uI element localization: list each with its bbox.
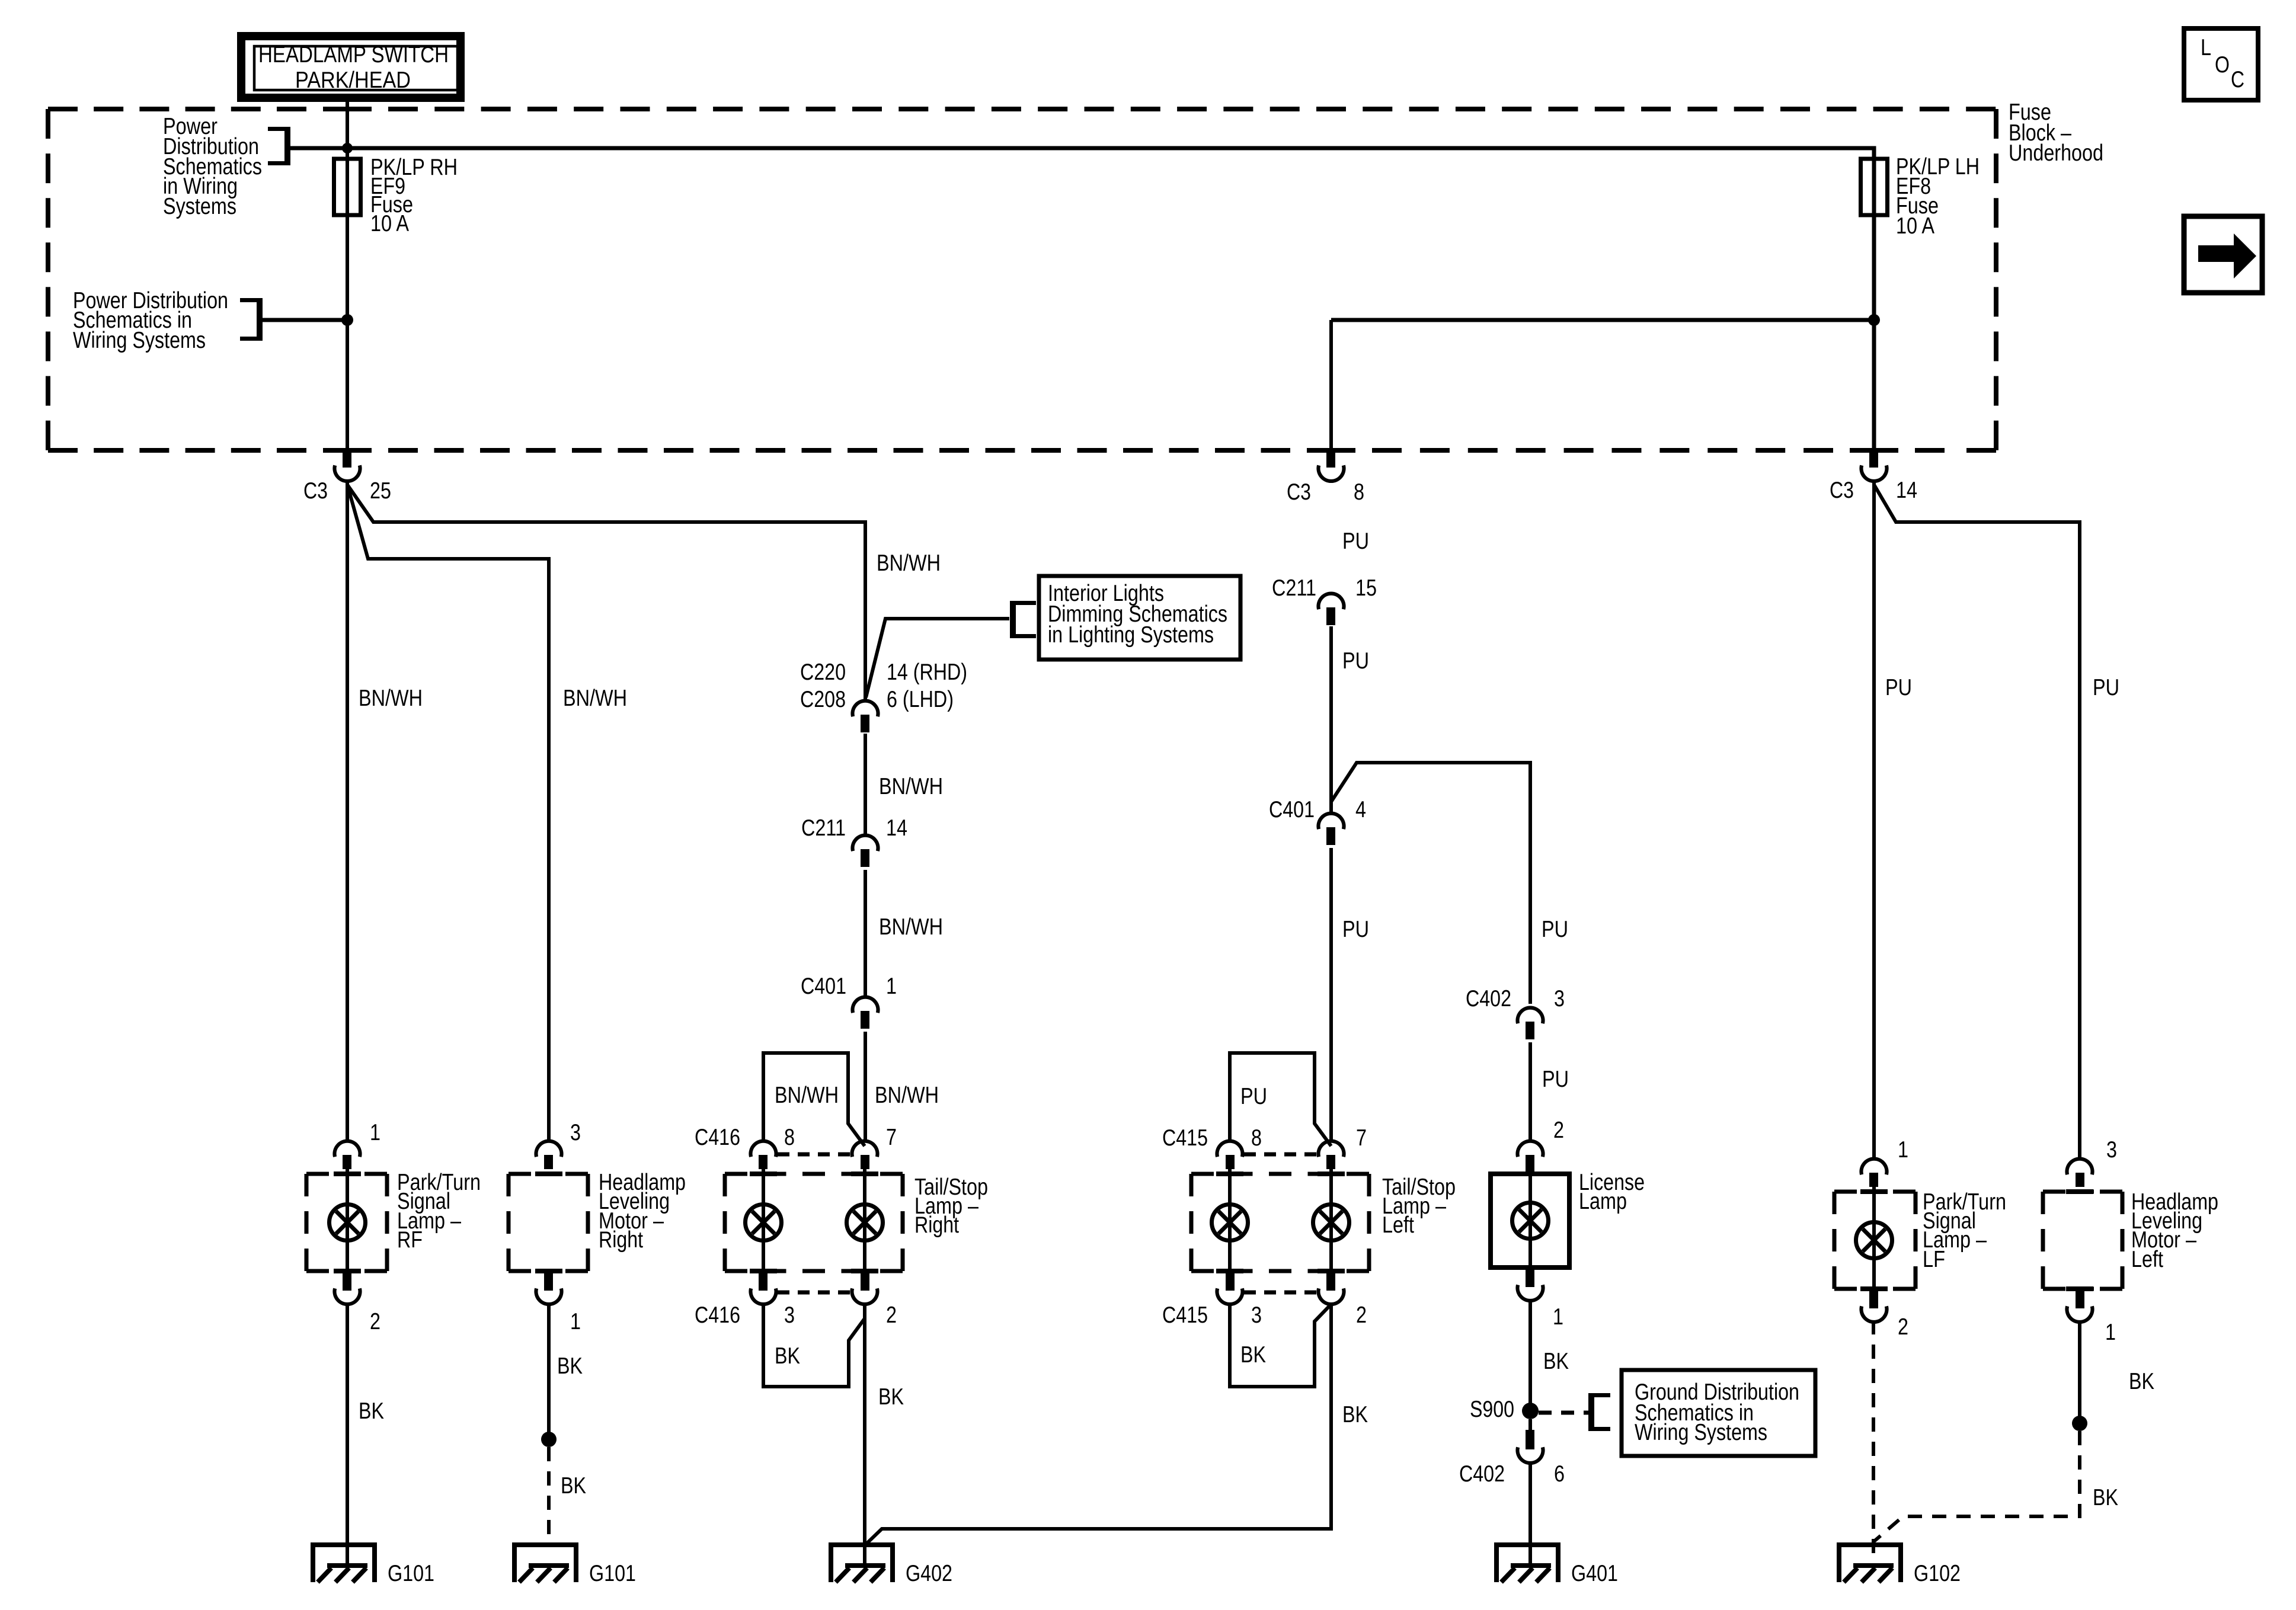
svg-text:8: 8: [1251, 1125, 1262, 1151]
wire C3-14 branch to col I: [1874, 485, 2080, 1158]
box entry tick bottom (HLML): [2066, 1286, 2093, 1291]
park/turn signal lamp LF dashed box: [1834, 1190, 1916, 1194]
svg-text:BN/WH: BN/WH: [875, 1083, 939, 1108]
svg-text:BK: BK: [1543, 1349, 1569, 1374]
svg-text:C208: C208: [800, 687, 846, 712]
svg-text:2: 2: [370, 1309, 380, 1334]
svg-text:LF: LF: [1923, 1247, 1945, 1272]
svg-text:PU: PU: [1342, 529, 1369, 554]
svg-text:BK: BK: [2093, 1485, 2118, 1510]
box entry ticks tail right: [750, 1172, 777, 1176]
svg-text:1: 1: [370, 1120, 380, 1145]
connector C401 pin 4: [1319, 814, 1344, 830]
ground distribution schematics box: [1622, 1370, 1815, 1456]
wire col F riser from bus2 to C3 pin 8: [1329, 320, 1333, 449]
svg-text:BK: BK: [1342, 1402, 1368, 1427]
bracket ref interior lights dimming: [1010, 601, 1016, 638]
bulb tail left right: [1313, 1205, 1350, 1241]
svg-text:Lamp: Lamp: [1579, 1189, 1627, 1214]
svg-text:C402: C402: [1459, 1461, 1505, 1487]
svg-text:BK: BK: [561, 1473, 586, 1499]
svg-text:PARK/HEAD: PARK/HEAD: [295, 68, 411, 93]
svg-text:BK: BK: [557, 1353, 583, 1379]
bulb license: [1512, 1203, 1549, 1239]
box entry tick bottom (HLMR): [535, 1269, 562, 1273]
svg-text:PU: PU: [1342, 917, 1369, 942]
svg-text:6: 6: [1554, 1461, 1565, 1487]
svg-text:10 A: 10 A: [370, 211, 409, 236]
box entry tick bottom (LF): [1860, 1286, 1888, 1291]
svg-text:G401: G401: [1571, 1561, 1618, 1586]
wire bracket2 to junction B: [263, 318, 347, 322]
park/turn signal lamp RF dashed box: [306, 1172, 387, 1176]
headlamp leveling motor left dashed box: [2043, 1190, 2122, 1194]
headlamp switch PARK/HEAD box: [241, 36, 461, 98]
ground G101 (col B): [512, 1542, 578, 1547]
svg-text:G101: G101: [388, 1561, 434, 1586]
arrow navigation box: [2184, 216, 2262, 293]
staple wire pin3 to pin2 (tail left bottom): [1230, 1302, 1331, 1387]
dashed link S900 to bracket: [1539, 1411, 1591, 1415]
connector pin 2 park/turn LF: [1869, 1289, 1878, 1308]
junction dot A on col A at y250: [342, 143, 353, 153]
svg-text:Systems: Systems: [163, 194, 236, 219]
connector pin 2 tail left: [1326, 1271, 1335, 1291]
tail/stop lamp left dashed box: [1191, 1172, 1369, 1176]
branch wire to license lamp col G: [1331, 763, 1530, 1004]
svg-text:2: 2: [1553, 1118, 1564, 1143]
svg-text:RF: RF: [397, 1227, 423, 1253]
interior lights dimming schematics box: [1039, 576, 1240, 660]
wire C220 to C211-14: [864, 734, 867, 835]
svg-text:G402: G402: [906, 1561, 952, 1586]
svg-text:HEADLAMP SWITCH: HEADLAMP SWITCH: [258, 42, 449, 68]
box entry ticks tail left: [1216, 1172, 1243, 1176]
staple wire pin7 to pin8 (tail left top): [1230, 1053, 1331, 1146]
connector pin 7 tail right: [852, 1141, 877, 1157]
dashed wire splice to G101 (col B): [547, 1447, 551, 1545]
svg-text:4: 4: [1355, 797, 1366, 822]
svg-text:Right: Right: [914, 1212, 959, 1238]
wire headlamp switch to C3 pin 25 through fuse EF9: [346, 102, 349, 449]
tail/stop lamp right dashed box: [725, 1172, 903, 1176]
svg-text:1: 1: [886, 974, 897, 999]
wire C3-25 branch to col B: [347, 485, 549, 1141]
svg-text:14: 14: [886, 815, 907, 841]
connector pin 3 HLM right: [536, 1141, 562, 1157]
ground G101 (col A): [311, 1542, 377, 1547]
box entry tick top (LF): [1860, 1189, 1888, 1194]
connector pin 8 tail left: [1217, 1141, 1243, 1157]
svg-text:Underhood: Underhood: [2009, 140, 2103, 166]
svg-text:PU: PU: [1342, 648, 1369, 674]
svg-text:C3: C3: [303, 478, 328, 504]
wire park/turn RF pin2 to G101: [346, 1302, 349, 1566]
connector pin 3 tail right: [759, 1271, 768, 1291]
connector pin 1 park/turn LF: [1862, 1159, 1887, 1175]
svg-text:BN/WH: BN/WH: [359, 686, 423, 711]
dashed link C416 bottom: [778, 1291, 850, 1295]
fuse block underhood dashed outline: [46, 109, 50, 450]
connector C211 pin 15: [1319, 594, 1344, 610]
box entry tick bottom (RF): [334, 1269, 361, 1273]
svg-text:G101: G101: [589, 1561, 636, 1586]
svg-text:PU: PU: [1240, 1084, 1267, 1109]
connector C3 pin 25: [343, 448, 351, 468]
wire inside RF box: [346, 1169, 349, 1271]
svg-text:3: 3: [570, 1120, 581, 1145]
wire inside tail right box right: [863, 1169, 866, 1271]
connector C402 pin 6: [1526, 1430, 1534, 1449]
splice S900: [1522, 1403, 1539, 1419]
staple wire pin3 to pin2 (tail right bottom): [763, 1302, 865, 1387]
svg-text:S900: S900: [1470, 1397, 1514, 1422]
wire C401-1 to tail/stop right pin 7: [864, 1032, 867, 1141]
wire C401-4 to tail/stop left pin 7: [1329, 848, 1333, 1141]
wire HLM right pin1 to splice: [547, 1302, 551, 1439]
svg-text:3: 3: [2106, 1137, 2117, 1163]
svg-text:6 (LHD): 6 (LHD): [887, 687, 954, 712]
svg-text:C401: C401: [801, 974, 846, 999]
svg-text:1: 1: [2105, 1320, 2116, 1345]
svg-text:1: 1: [1898, 1137, 1908, 1163]
svg-text:BN/WH: BN/WH: [775, 1083, 839, 1108]
svg-text:BK: BK: [775, 1343, 800, 1369]
svg-text:C3: C3: [1287, 479, 1311, 505]
connector C220/C208: [853, 701, 878, 717]
wire C3-25 to park/turn RF pin 1: [346, 483, 349, 1141]
bulb tail right right: [847, 1205, 883, 1241]
svg-text:2: 2: [1898, 1314, 1908, 1340]
wire C402-6 to G401: [1528, 1461, 1532, 1566]
svg-text:C220: C220: [800, 660, 846, 685]
splice dot col B: [541, 1432, 557, 1447]
bulb tail left left: [1212, 1205, 1248, 1241]
wire bus2 right segment: [1331, 318, 1874, 322]
svg-text:8: 8: [784, 1125, 795, 1150]
svg-text:PU: PU: [1885, 675, 1912, 700]
connector pin 8 tail right: [751, 1141, 776, 1157]
svg-text:C415: C415: [1162, 1302, 1208, 1328]
ground G102: [1837, 1542, 1903, 1547]
connector pin 7 tail left: [1319, 1141, 1344, 1157]
connector C211 pin 14: [853, 836, 878, 852]
fuse EF9: [334, 159, 361, 215]
svg-text:Left: Left: [2131, 1247, 2163, 1272]
dashed link C415 top: [1244, 1153, 1317, 1157]
box entry tick top (RF): [334, 1172, 361, 1176]
dashed link C416 top: [778, 1153, 850, 1157]
svg-text:8: 8: [1354, 479, 1364, 505]
svg-text:2: 2: [1356, 1302, 1367, 1328]
ground G402: [829, 1542, 895, 1547]
svg-text:7: 7: [1356, 1125, 1367, 1151]
wire C3-14 to park/turn LF pin 1: [1872, 483, 1876, 1158]
box entry tick top (HLMR): [535, 1172, 562, 1176]
svg-text:C3: C3: [1830, 478, 1854, 503]
connector C3 pin 14: [1869, 448, 1878, 468]
LOC reference box: [2184, 28, 2258, 100]
svg-text:Wiring Systems: Wiring Systems: [1635, 1420, 1767, 1445]
svg-text:O: O: [2215, 52, 2230, 78]
svg-text:BN/WH: BN/WH: [563, 686, 627, 711]
connector pin 1 park/turn RF: [334, 1141, 360, 1157]
svg-text:C416: C416: [695, 1125, 740, 1150]
svg-text:C211: C211: [801, 815, 846, 841]
svg-text:Right: Right: [599, 1227, 643, 1253]
svg-text:2: 2: [886, 1302, 897, 1328]
bracket ref ground distribution: [1588, 1393, 1594, 1431]
wire license pin1 to S900: [1528, 1299, 1532, 1411]
wire tail left pin2 to G402 long run: [866, 1302, 1331, 1544]
bulb park/turn RF: [330, 1205, 366, 1241]
svg-text:C415: C415: [1162, 1125, 1208, 1151]
svg-text:15: 15: [1355, 575, 1377, 601]
connector pin 2 tail right: [861, 1271, 869, 1291]
svg-text:C416: C416: [695, 1302, 740, 1328]
bracket ref power distribution schematics (upper): [284, 127, 290, 165]
splice dot col I: [2072, 1416, 2087, 1431]
headlamp leveling motor right dashed box: [509, 1172, 588, 1176]
svg-text:BK: BK: [878, 1384, 904, 1410]
dashed wire park/turn LF pin2 to G102: [1872, 1320, 1875, 1566]
wire tail right pin2 to G402: [863, 1302, 866, 1566]
svg-text:14 (RHD): 14 (RHD): [887, 660, 967, 685]
svg-text:10 A: 10 A: [1896, 213, 1934, 239]
svg-text:BN/WH: BN/WH: [877, 550, 941, 576]
svg-text:PU: PU: [2093, 675, 2119, 700]
wire HLM left pin1 to splice: [2078, 1320, 2081, 1423]
svg-text:3: 3: [1554, 986, 1565, 1012]
wire bus from junction A to fuse EF8 feed: [290, 148, 1874, 449]
ground G401: [1494, 1542, 1560, 1547]
svg-text:C: C: [2231, 67, 2244, 92]
wire C211-15 to C401-4: [1329, 626, 1333, 813]
connector C401 pin 1: [853, 997, 878, 1013]
svg-text:7: 7: [886, 1125, 897, 1150]
svg-text:C211: C211: [1272, 575, 1316, 601]
staple wire pin7 to pin8 (tail right top): [763, 1053, 865, 1146]
connector C402 pin 3: [1518, 1008, 1543, 1024]
svg-text:BK: BK: [359, 1398, 384, 1424]
svg-text:C401: C401: [1269, 797, 1315, 822]
wire C211-14 to C401-1: [864, 870, 867, 997]
svg-text:25: 25: [370, 478, 391, 504]
connector pin 1 HLM left: [2076, 1289, 2084, 1308]
bracket ref power distribution schematics (lower): [257, 298, 263, 341]
svg-text:BN/WH: BN/WH: [879, 914, 943, 940]
branch wire to interior lights dimming bracket: [866, 619, 1009, 697]
svg-text:L: L: [2201, 35, 2211, 60]
svg-text:G102: G102: [1914, 1561, 1961, 1586]
box entry tick top (HLML): [2066, 1189, 2093, 1194]
connector pin 2 park/turn RF: [343, 1271, 351, 1291]
connector pin 1 license: [1526, 1267, 1534, 1287]
svg-text:BN/WH: BN/WH: [879, 774, 943, 799]
dashed link C415 bottom: [1244, 1291, 1317, 1295]
svg-text:3: 3: [1251, 1302, 1262, 1328]
svg-text:1: 1: [570, 1309, 581, 1334]
wire inside license box: [1528, 1172, 1532, 1267]
wire C3-25 branch to col D: [347, 485, 865, 700]
wire inside tail left box right: [1329, 1169, 1333, 1271]
license lamp box: [1491, 1174, 1569, 1267]
connector C3 pin 8: [1326, 448, 1335, 468]
svg-text:1: 1: [1553, 1304, 1563, 1330]
svg-text:PU: PU: [1542, 917, 1568, 942]
wire inside LF box: [1872, 1186, 1876, 1289]
connector pin 3 HLM left: [2067, 1159, 2093, 1175]
bulb tail right left: [746, 1205, 782, 1241]
dashed wire splice to G102 merge: [1873, 1431, 2080, 1542]
svg-text:3: 3: [784, 1302, 795, 1328]
fuse EF8: [1861, 159, 1888, 215]
svg-text:PU: PU: [1542, 1067, 1569, 1092]
connector pin 2 license: [1518, 1141, 1543, 1157]
connector pin 3 tail left: [1226, 1271, 1235, 1291]
wire S900 to C402-6: [1528, 1419, 1532, 1430]
bulb park/turn LF: [1856, 1222, 1892, 1259]
wire C402-3 to license pin 2: [1528, 1042, 1532, 1141]
svg-text:in Lighting Systems: in Lighting Systems: [1048, 622, 1214, 648]
connector pin 1 HLM right: [544, 1271, 553, 1291]
wire inside tail left box left: [1228, 1169, 1232, 1271]
tick marks at C3 wire crossings on fuse block bottom edge: [323, 448, 372, 453]
junction dot C col H at y540: [1868, 314, 1880, 326]
wire inside tail right box left: [762, 1169, 765, 1271]
svg-text:C402: C402: [1466, 986, 1511, 1012]
junction dot B col A at y540: [341, 314, 353, 326]
svg-text:BK: BK: [1240, 1342, 1266, 1368]
svg-text:BK: BK: [2129, 1369, 2154, 1394]
svg-text:Wiring Systems: Wiring Systems: [73, 328, 206, 353]
svg-text:14: 14: [1896, 478, 1917, 503]
svg-text:Left: Left: [1382, 1212, 1414, 1238]
